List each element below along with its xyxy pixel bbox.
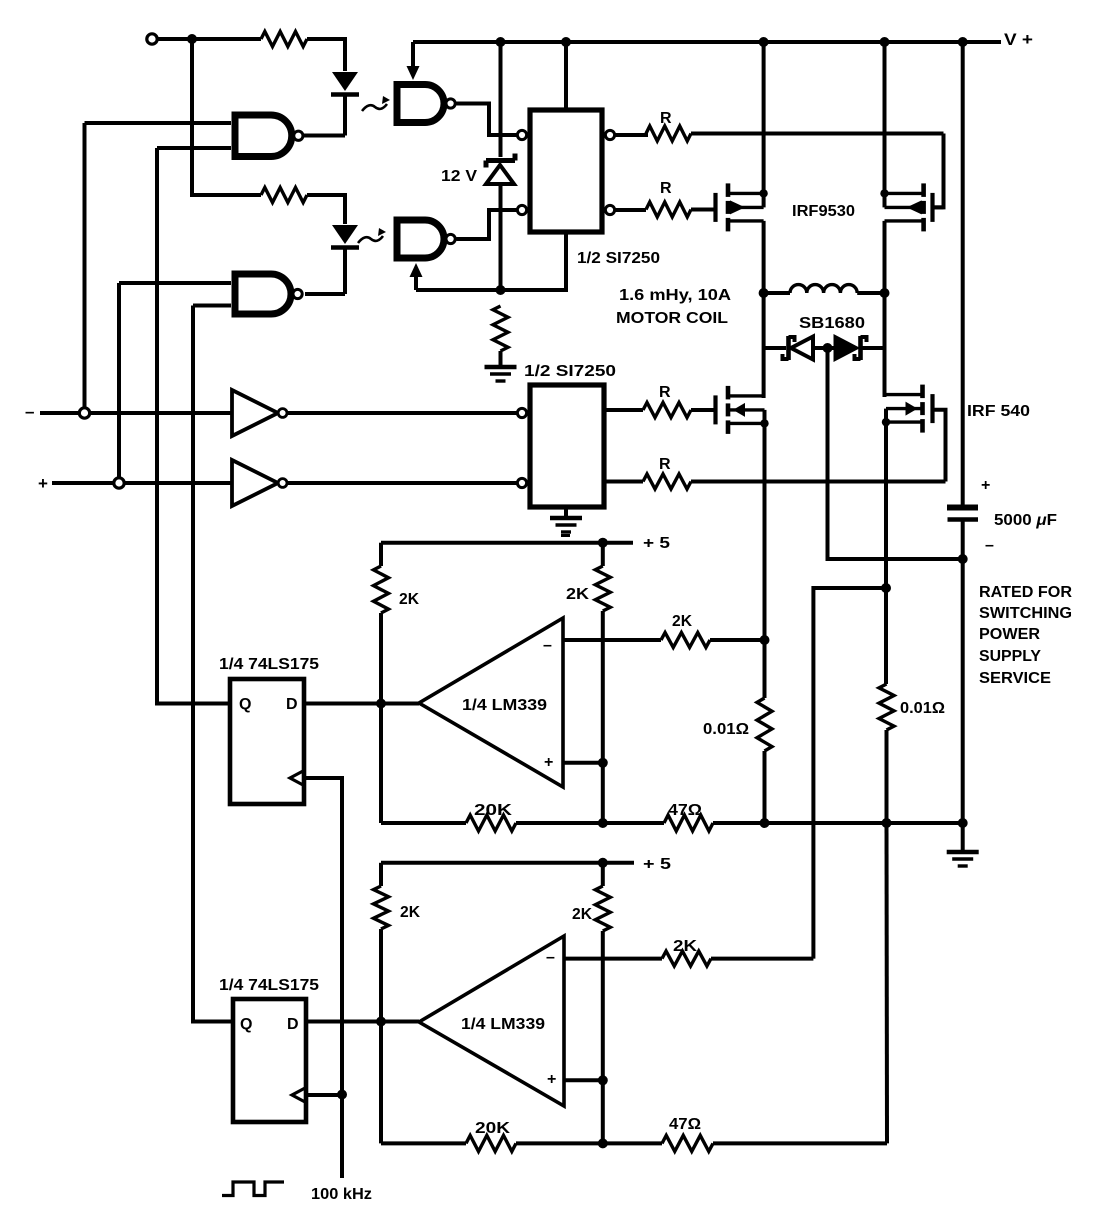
label D — [287, 1016, 299, 1033]
wire Q2 source to rail — [883, 42, 887, 193]
label 2K — [566, 586, 590, 603]
wire +5 line (comp2) — [381, 861, 634, 865]
svg-text:–: – — [543, 637, 552, 654]
label R — [660, 180, 672, 197]
resistor R (left P gate) — [615, 202, 714, 217]
LED D1 (optocoupler diode) — [331, 72, 359, 136]
label + (non-inverting) — [547, 1071, 556, 1088]
svg-text:+: + — [544, 754, 553, 771]
svg-text:SB1680: SB1680 — [799, 315, 865, 332]
wire D line comp1 out — [304, 702, 419, 706]
label 0.01ohm — [703, 721, 749, 738]
svg-text:–: – — [25, 402, 34, 421]
light arrow to U2A — [362, 96, 390, 111]
svg-text:–: – — [546, 949, 555, 966]
flip-flop U7B 1/4 74LS175 — [233, 999, 306, 1122]
label RATED FOR — [979, 584, 1072, 601]
svg-text:1/4 LM339: 1/4 LM339 — [461, 1016, 545, 1033]
phototransistor arrow (from V+) — [407, 42, 420, 80]
svg-text:SWITCHING: SWITCHING — [979, 605, 1072, 622]
flip-flop U7A 1/4 74LS175 — [230, 679, 304, 804]
label 47ohm — [668, 802, 702, 819]
label 1/4 74LS175 — [219, 977, 319, 994]
resistor R (left N gate) — [604, 403, 714, 418]
comparator U6A 1/4 LM339 — [419, 618, 563, 787]
label D — [286, 696, 298, 713]
label Q — [239, 696, 251, 713]
junction — [823, 343, 833, 353]
wire comp1 + input — [564, 761, 603, 765]
label MOTOR COIL — [616, 310, 728, 327]
wire comp2 inverting input — [565, 957, 662, 961]
junction — [760, 635, 770, 645]
wire U3 top to rail — [564, 42, 568, 110]
svg-text:POWER: POWER — [979, 626, 1040, 643]
junction — [496, 37, 506, 47]
junction — [760, 419, 768, 427]
junction — [337, 1090, 347, 1100]
resistor 47ohm (comp2) — [603, 1135, 887, 1151]
capacitor C1 5000uF — [947, 508, 978, 520]
svg-text:Q: Q — [240, 1016, 252, 1033]
label 1/4 74LS175 — [219, 656, 319, 673]
svg-text:D: D — [286, 696, 298, 713]
resistor 20K (comp2) — [381, 1135, 603, 1151]
light arrow to U2B — [358, 228, 386, 243]
zener diode 12V — [486, 154, 515, 185]
wire coil left — [764, 291, 790, 295]
junction — [880, 189, 888, 197]
resistor to ground — [493, 306, 508, 366]
label SERVICE — [979, 670, 1051, 687]
label 2K — [572, 906, 592, 923]
wire bus B2 (NAND U1B A to + line) — [117, 283, 121, 478]
input terminal (top left) — [147, 34, 157, 44]
svg-text:IRF 540: IRF 540 — [967, 403, 1030, 420]
wire comp2 sense up — [813, 588, 886, 959]
svg-text:+: + — [547, 1071, 556, 1088]
wire — [304, 134, 345, 138]
wire zener from rail — [499, 42, 503, 157]
wire left leg (Q1 drain to Q3 drain) — [762, 293, 766, 398]
label 2K — [672, 613, 692, 630]
wire NAND U1A input A — [85, 121, 232, 125]
svg-text:1/2 SI7250: 1/2 SI7250 — [577, 250, 660, 267]
resistor 20K (comp1) — [381, 815, 603, 831]
wire cap to ground rail — [961, 521, 965, 823]
junction — [598, 818, 608, 828]
wire NAND U1A input B — [157, 146, 231, 150]
wire U2B out to driver — [457, 210, 518, 239]
wire Q4 body tie — [884, 409, 888, 423]
LED D2 (optocoupler diode) — [331, 225, 359, 294]
output bubble — [605, 130, 614, 139]
svg-text:2K: 2K — [572, 906, 592, 923]
wire to IRF9530 right gate — [935, 134, 944, 208]
wire right sense leg — [884, 588, 888, 684]
wire NAND U1B input B — [193, 304, 231, 308]
wire comp1 inverting input — [564, 638, 661, 642]
junction — [187, 34, 197, 44]
wire FF1 clock — [304, 778, 342, 1095]
wire coil right — [857, 291, 884, 295]
wire +5 line (comp1) — [381, 541, 633, 545]
driver block U4 (1/2 SI7250) — [530, 385, 604, 507]
svg-text:D: D — [287, 1016, 299, 1033]
label IRF9530 — [792, 203, 855, 220]
svg-text:+: + — [981, 477, 990, 494]
wire D line comp2 out — [306, 1020, 419, 1024]
label 100 kHz — [311, 1186, 372, 1203]
input bubble — [517, 478, 526, 487]
phototransistor arrow (to common) — [410, 263, 423, 290]
svg-text:R: R — [660, 180, 672, 197]
wire SB1680 left — [764, 346, 786, 350]
svg-text:R: R — [659, 456, 671, 473]
junction — [561, 37, 571, 47]
wire bus B4 (NAND U1B B to FF2 Q) — [193, 306, 233, 1022]
label - (inverting) — [546, 949, 555, 966]
svg-text:1/2 SI7250: 1/2 SI7250 — [524, 363, 616, 380]
resistor (top left, to LED D1) — [192, 32, 345, 72]
NAND gate U1B — [235, 274, 302, 314]
svg-text:SERVICE: SERVICE — [979, 670, 1051, 687]
junction — [882, 418, 890, 426]
svg-text:20K: 20K — [474, 802, 513, 819]
label 0.01ohm — [900, 700, 945, 717]
label 5000 uF — [994, 512, 1057, 529]
svg-text:R: R — [659, 384, 671, 401]
label + input — [38, 474, 48, 493]
svg-text:+ 5: + 5 — [643, 856, 671, 873]
label R — [659, 384, 671, 401]
wire Q2 drain down — [883, 221, 887, 293]
wire Q3 source down — [763, 423, 767, 640]
svg-text:–: – — [985, 537, 994, 554]
label 1/2 SI7250 (U4) — [524, 363, 616, 380]
label 47ohm — [669, 1116, 701, 1133]
wire Q2 body tie — [883, 193, 887, 207]
resistor 0.01ohm (left sense) — [757, 640, 772, 823]
label - input — [25, 402, 34, 421]
wire — [305, 292, 345, 296]
junction — [882, 818, 892, 828]
resistor 2K (comp1 mid) — [595, 543, 610, 823]
label + 5 — [643, 856, 671, 873]
label IRF540 — [967, 403, 1030, 420]
resistor 2K (comp1 to sense) — [661, 633, 765, 648]
svg-text:MOTOR COIL: MOTOR COIL — [616, 310, 728, 327]
transistor Q4 IRF540 (right) — [886, 385, 933, 433]
junction — [496, 285, 506, 295]
wire zener to common — [499, 186, 503, 290]
wire comp2 left loop — [379, 863, 383, 1144]
svg-text:2K: 2K — [672, 613, 692, 630]
svg-text:1/4 74LS175: 1/4 74LS175 — [219, 977, 319, 994]
wire bus B1 (NAND A to - line) — [83, 123, 87, 408]
ground (main) — [947, 852, 979, 866]
svg-text:20K: 20K — [475, 1120, 511, 1137]
V+ rail — [413, 40, 1001, 44]
wire clock line down — [340, 1095, 344, 1179]
comparator U6B 1/4 LM339 — [419, 936, 564, 1106]
svg-text:2K: 2K — [566, 586, 590, 603]
opto NAND gate U2B — [397, 220, 455, 258]
transistor Q1 IRF9530 (left) — [716, 183, 764, 231]
label 1/4 LM339 — [462, 697, 547, 714]
svg-text:R: R — [660, 110, 672, 127]
wire - input line — [40, 411, 232, 415]
wire to IRF540 right gate — [935, 410, 946, 482]
wire buffer1 out — [287, 411, 517, 415]
ground — [550, 518, 582, 532]
svg-text:Q: Q — [239, 696, 251, 713]
label SWITCHING — [979, 605, 1072, 622]
ground — [485, 367, 517, 381]
opto NAND gate U2A — [397, 85, 455, 123]
svg-text:RATED FOR: RATED FOR — [979, 584, 1072, 601]
wire U3 bottom to common — [416, 232, 566, 290]
wire comp1 left loop — [379, 543, 383, 823]
resistor (second, to LED D2) — [192, 39, 345, 224]
wire right sense to comp2 47ohm — [885, 823, 890, 1143]
node - input — [79, 408, 89, 418]
label V+ — [1004, 30, 1033, 49]
clock waveform symbol — [222, 1182, 284, 1196]
junction — [598, 1138, 608, 1148]
svg-text:1/4 74LS175: 1/4 74LS175 — [219, 656, 319, 673]
svg-text:1/4 LM339: 1/4 LM339 — [462, 697, 547, 714]
wire + input line — [52, 481, 232, 485]
svg-text:12 V: 12 V — [441, 168, 478, 185]
label 2K — [400, 904, 420, 921]
label 1/2 SI7250 (U3) — [577, 250, 660, 267]
ground stem — [961, 823, 965, 851]
label + 5 — [643, 535, 670, 552]
svg-text:IRF9530: IRF9530 — [792, 203, 855, 220]
label POWER — [979, 626, 1040, 643]
label 1/4 LM339 — [461, 1016, 545, 1033]
label 2K — [399, 591, 419, 608]
svg-text:1.6 mHy, 10A: 1.6 mHy, 10A — [619, 287, 732, 304]
stray mark — [561, 534, 570, 537]
junction — [958, 554, 968, 564]
label + — [981, 477, 990, 494]
svg-text:5000 μF: 5000 μF — [994, 512, 1057, 529]
input bubble — [517, 130, 526, 139]
buffer U5A — [232, 390, 287, 436]
diode D4 SB1680 (right) — [828, 336, 885, 360]
buffer U5B — [232, 460, 287, 506]
wire Q3 body tie — [763, 410, 767, 424]
label R — [659, 456, 671, 473]
wire cap from rail — [961, 42, 965, 505]
resistor 47ohm (comp1) — [603, 815, 963, 831]
label - — [985, 537, 994, 554]
input bubble — [517, 205, 526, 214]
svg-text:2K: 2K — [399, 591, 419, 608]
label R — [660, 110, 672, 127]
junction — [598, 1075, 608, 1085]
svg-text:2K: 2K — [400, 904, 420, 921]
junction — [759, 288, 769, 298]
label 20K — [475, 1120, 511, 1137]
wire U2A out to driver — [457, 104, 518, 136]
label 20K — [474, 802, 513, 819]
junction — [880, 37, 890, 47]
svg-text:0.01Ω: 0.01Ω — [703, 721, 749, 738]
label SUPPLY — [979, 648, 1041, 665]
wire Q1 drain down — [762, 221, 766, 293]
wire buffer2 out — [287, 481, 517, 485]
wire right leg (Q2 drain to Q4 drain) — [883, 293, 887, 397]
wire bus B3 (NAND B to FF1 Q) — [157, 148, 230, 704]
resistor 2K (comp2 mid) — [595, 863, 610, 1144]
svg-text:47Ω: 47Ω — [669, 1116, 701, 1133]
svg-text:2K: 2K — [673, 938, 698, 955]
resistor 2K (comp2 to sense) — [662, 951, 813, 966]
transistor Q3 IRF540 (left) — [716, 386, 765, 434]
ground stem U4 — [564, 507, 568, 517]
junction — [958, 818, 968, 828]
wire NAND U1B input A — [119, 281, 231, 285]
NAND gate U1A — [235, 115, 303, 157]
svg-text:V +: V + — [1004, 30, 1033, 49]
wire SB1680 center to cap node — [828, 348, 963, 559]
resistor R (right N gate) — [604, 474, 946, 489]
wire FF2 clock — [306, 1093, 342, 1097]
input bubble — [517, 408, 526, 417]
junction — [759, 189, 767, 197]
label SB1680 — [799, 315, 865, 332]
inductor L1 motor coil — [790, 285, 857, 293]
wire Q4 source down — [884, 422, 888, 588]
junction — [376, 1017, 386, 1027]
junction — [598, 858, 608, 868]
clock edge symbol FF1 — [290, 771, 304, 786]
junction — [958, 37, 968, 47]
wire comp2 + input — [565, 1078, 603, 1082]
label 1.6 mHy, 10A — [619, 287, 732, 304]
svg-text:+: + — [38, 474, 48, 493]
transistor Q2 IRF9530 (right) — [885, 183, 933, 231]
label + (non-inverting) — [544, 754, 553, 771]
wire Q1 source to rail — [762, 42, 766, 193]
junction — [881, 583, 891, 593]
resistor 2K (comp2 pullup left) — [374, 886, 389, 929]
clock edge symbol FF2 — [292, 1088, 306, 1103]
svg-text:+ 5: + 5 — [643, 535, 670, 552]
resistor 0.01ohm (right sense) — [879, 684, 894, 823]
wire — [158, 37, 193, 41]
label - (inverting) — [543, 637, 552, 654]
junction — [880, 288, 890, 298]
output bubble — [605, 205, 614, 214]
wire Q1 body tie — [762, 193, 766, 207]
junction — [598, 758, 608, 768]
junction — [760, 818, 770, 828]
junction — [759, 37, 769, 47]
svg-text:47Ω: 47Ω — [668, 802, 702, 819]
node + input — [114, 478, 124, 488]
svg-text:SUPPLY: SUPPLY — [979, 648, 1041, 665]
junction — [598, 538, 608, 548]
diode D3 SB1680 (left) — [783, 336, 828, 360]
label 2K — [673, 938, 698, 955]
label 12 V — [441, 168, 478, 185]
junction — [376, 699, 386, 709]
wire Q2 gate — [935, 205, 944, 209]
resistor R (upper P gate) — [615, 126, 944, 141]
svg-text:100 kHz: 100 kHz — [311, 1186, 372, 1203]
driver block U3 (1/2 SI7250) — [530, 110, 602, 232]
label Q — [240, 1016, 252, 1033]
resistor 2K (comp1 pullup left) — [374, 566, 389, 613]
svg-text:0.01Ω: 0.01Ω — [900, 700, 945, 717]
